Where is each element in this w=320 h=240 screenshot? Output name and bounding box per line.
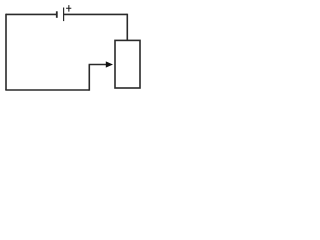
wire: step up to wiper arm [88, 65, 90, 91]
wire: top-right from battery positive plate to corner [64, 13, 128, 15]
wire: left side vertical [5, 14, 7, 90]
battery positive plate (long) [63, 8, 65, 22]
wire: bottom horizontal [5, 89, 89, 91]
wire: right vertical down to resistor top [126, 14, 128, 41]
wire: top-left from corner to battery negative plate [6, 13, 57, 15]
resistor R (box) [115, 40, 140, 88]
arrowhead pointing into resistor left side [106, 61, 113, 67]
wire: wiper arm horizontal toward resistor [89, 64, 108, 66]
battery negative plate (short) [56, 11, 58, 17]
label + (battery polarity) [66, 5, 71, 12]
